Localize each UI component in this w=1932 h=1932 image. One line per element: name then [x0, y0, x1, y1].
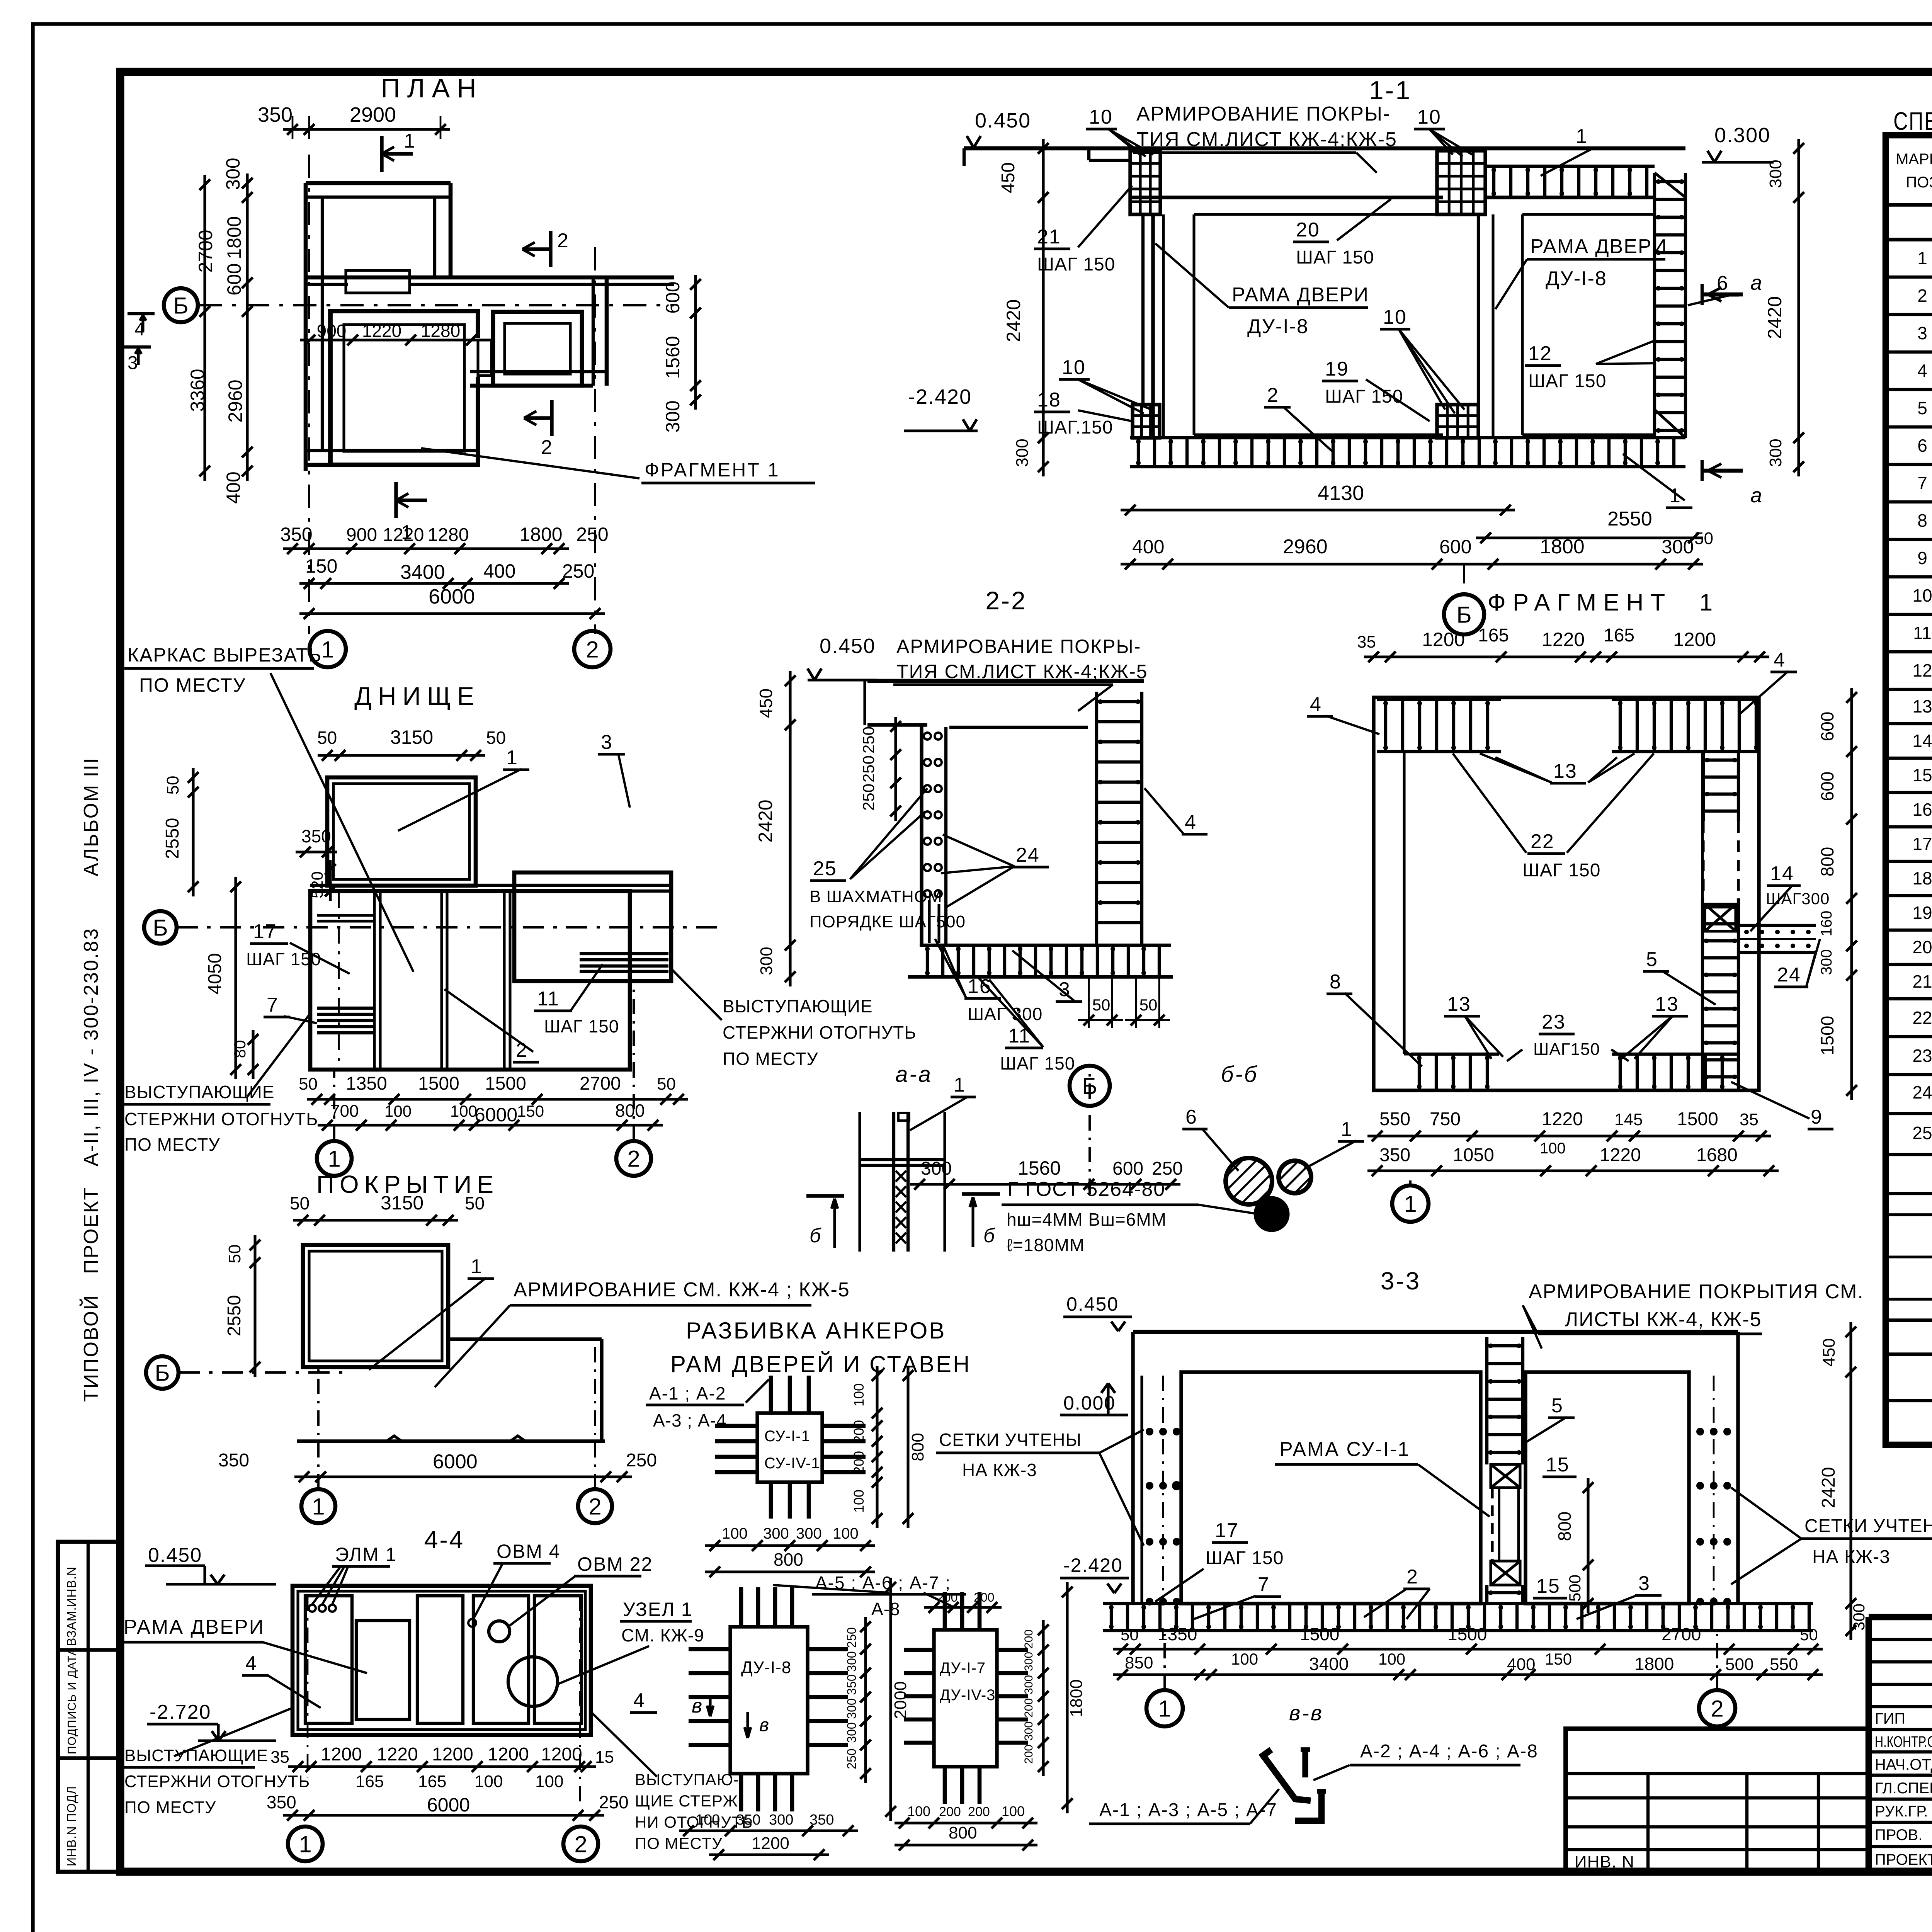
svg-text:250: 250 — [1152, 1158, 1183, 1179]
plan section mark 1 bottom — [394, 482, 398, 518]
svg-text:1-1: 1-1 — [1369, 76, 1412, 105]
anchor diagram SU-I-1 — [757, 1413, 822, 1482]
svg-text:4050: 4050 — [205, 953, 225, 995]
svg-text:600: 600 — [1439, 536, 1471, 558]
dnishche right panel — [514, 872, 671, 981]
svg-text:б: б — [983, 1225, 995, 1247]
svg-text:РАМА ДВЕРИ: РАМА ДВЕРИ — [1530, 235, 1667, 258]
svg-text:Г ГОСТ 5264-80: Г ГОСТ 5264-80 — [1007, 1178, 1165, 1201]
4-4 axis circles — [288, 1827, 323, 1861]
row 25 — [1886, 1153, 1932, 1156]
svg-text:1: 1 — [1576, 125, 1588, 148]
svg-text:200: 200 — [1022, 1698, 1035, 1718]
svg-text:165: 165 — [1604, 625, 1634, 646]
svg-text:ШАГ.150: ШАГ.150 — [1037, 417, 1113, 438]
svg-text:165: 165 — [355, 1772, 384, 1791]
svg-text:6: 6 — [1185, 1106, 1197, 1128]
svg-text:200: 200 — [1022, 1745, 1035, 1764]
svg-text:ШАГ 150: ШАГ 150 — [1296, 247, 1374, 268]
plan right room — [493, 312, 582, 386]
beton rows — [1886, 1399, 1932, 1402]
svg-text:1200: 1200 — [752, 1834, 789, 1853]
svg-text:-2.420: -2.420 — [1063, 1554, 1123, 1576]
svg-text:20: 20 — [1912, 937, 1932, 957]
svg-text:0.450: 0.450 — [975, 109, 1031, 132]
svg-text:В ШАХМАТНОМ: В ШАХМАТНОМ — [810, 887, 942, 906]
dnishche axis B — [144, 911, 177, 944]
row 24 — [1886, 1112, 1932, 1115]
svg-text:Б: Б — [1082, 1073, 1097, 1099]
svg-text:300: 300 — [662, 400, 684, 432]
svg-text:50: 50 — [317, 728, 337, 748]
svg-text:11: 11 — [537, 988, 560, 1010]
2-2 left wall with stirrups — [920, 725, 923, 945]
plan door top — [346, 270, 410, 293]
svg-text:1: 1 — [471, 1255, 483, 1278]
1-1 bottom dims — [1121, 509, 1515, 511]
svg-text:300: 300 — [757, 947, 776, 975]
svg-text:7: 7 — [267, 994, 279, 1016]
svg-text:2420: 2420 — [1818, 1467, 1839, 1509]
svg-text:20: 20 — [1296, 219, 1320, 241]
svg-text:3-3: 3-3 — [1381, 1267, 1421, 1295]
fragment right mid dashed frame — [1702, 821, 1704, 898]
svg-text:2-2: 2-2 — [985, 586, 1027, 615]
svg-text:100: 100 — [1231, 1650, 1258, 1668]
1-1 left dims — [1042, 188, 1044, 447]
svg-text:145: 145 — [1614, 1110, 1643, 1129]
svg-text:ЛИСТЫ КЖ-4, КЖ-5: ЛИСТЫ КЖ-4, КЖ-5 — [1565, 1308, 1762, 1331]
svg-text:350: 350 — [845, 1674, 859, 1695]
svg-text:100: 100 — [1378, 1650, 1405, 1668]
1-1 slab outline — [964, 146, 1685, 151]
svg-text:ВЫСТУПАЮЩИЕ: ВЫСТУПАЮЩИЕ — [124, 1746, 268, 1765]
svg-text:14: 14 — [1912, 731, 1932, 751]
svg-text:КАРКАС ВЫРЕЗАТЬ: КАРКАС ВЫРЕЗАТЬ — [128, 644, 322, 666]
svg-text:-2.720: -2.720 — [150, 1701, 211, 1723]
svg-text:1200: 1200 — [541, 1744, 582, 1765]
svg-text:9: 9 — [1811, 1106, 1823, 1128]
armatura band — [1886, 238, 1932, 241]
svg-text:250: 250 — [562, 560, 594, 582]
svg-text:ДУ-I-7: ДУ-I-7 — [940, 1660, 986, 1677]
4-4 ovm22 circle — [489, 1621, 510, 1642]
svg-text:3400: 3400 — [400, 561, 445, 583]
svg-text:200: 200 — [851, 1451, 867, 1474]
svg-text:4: 4 — [1185, 811, 1197, 833]
svg-text:50: 50 — [465, 1193, 485, 1213]
2-2 dims left 450 2420 300 — [789, 671, 791, 735]
plan main room — [330, 311, 478, 465]
1-1 room left inner edge — [1192, 214, 1195, 435]
svg-text:250: 250 — [599, 1792, 629, 1812]
svg-text:ФРАГМЕНТ 1: ФРАГМЕНТ 1 — [645, 459, 780, 481]
svg-text:НИ ОТОГНУТЬ: НИ ОТОГНУТЬ — [635, 1813, 753, 1831]
svg-text:1500: 1500 — [1677, 1109, 1718, 1129]
2-2 room — [949, 726, 1088, 729]
svg-text:300: 300 — [1022, 1721, 1035, 1741]
svg-text:РУК.ГР.: РУК.ГР. — [1875, 1803, 1928, 1820]
svg-text:15: 15 — [1546, 1454, 1570, 1476]
plan opening right — [468, 338, 492, 377]
svg-text:10: 10 — [1062, 356, 1086, 379]
svg-text:3: 3 — [601, 731, 613, 753]
svg-text:1: 1 — [1158, 1696, 1171, 1722]
svg-text:50: 50 — [225, 1245, 244, 1264]
svg-text:13: 13 — [1553, 760, 1577, 782]
svg-text:АЛЬБОМ III: АЛЬБОМ III — [80, 757, 102, 876]
svg-text:2: 2 — [627, 1146, 640, 1172]
title block left small table — [1566, 1729, 1869, 1872]
svg-text:4: 4 — [633, 1689, 645, 1712]
svg-text:350: 350 — [280, 524, 312, 545]
svg-text:в: в — [759, 1715, 770, 1735]
a-a column — [858, 1112, 861, 1252]
svg-text:50: 50 — [1800, 1626, 1818, 1644]
svg-text:100: 100 — [384, 1102, 412, 1120]
svg-text:100: 100 — [851, 1383, 867, 1406]
svg-text:2550: 2550 — [162, 818, 183, 859]
b-b weld circles — [1226, 1158, 1272, 1204]
svg-text:1200: 1200 — [1422, 629, 1465, 650]
2-2 bottom dims — [910, 1183, 1180, 1185]
svg-text:1800: 1800 — [519, 524, 562, 545]
svg-text:СЕТКИ УЧТЕНЫ: СЕТКИ УЧТЕНЫ — [939, 1430, 1082, 1450]
svg-text:hш=4ММ Вш=6ММ: hш=4ММ Вш=6ММ — [1007, 1209, 1167, 1230]
svg-text:ПОДПИСЬ И ДАТА: ПОДПИСЬ И ДАТА — [66, 1647, 78, 1754]
svg-text:13: 13 — [1912, 696, 1932, 716]
plan section mark 1 top — [380, 136, 383, 172]
svg-text:а: а — [1750, 484, 1763, 507]
1-1 bottom-mid anchor block — [1437, 405, 1478, 438]
plan bottom wall — [306, 449, 478, 452]
svg-text:АРМИРОВАНИЕ ПОКРЫ-: АРМИРОВАНИЕ ПОКРЫ- — [1136, 103, 1390, 125]
svg-text:1: 1 — [328, 1146, 340, 1172]
svg-text:ОВМ 22: ОВМ 22 — [577, 1553, 653, 1575]
svg-text:100: 100 — [696, 1812, 720, 1828]
svg-text:12: 12 — [1528, 342, 1552, 365]
svg-text:А-8: А-8 — [871, 1599, 900, 1619]
svg-text:ШАГ150: ШАГ150 — [1533, 1040, 1600, 1059]
svg-text:ДНИЩЕ: ДНИЩЕ — [354, 682, 480, 710]
svg-text:СПЕЦИФИКАЦИЯ ЭЛЕМЕНТОВ К СХЕ: СПЕЦИФИКАЦИЯ ЭЛЕМЕНТОВ К СХЕМАМ, РАСПОЛО… — [1893, 107, 1932, 135]
plan section mark 2 upper — [549, 231, 552, 267]
svg-text:1: 1 — [506, 747, 518, 769]
svg-text:350: 350 — [267, 1792, 296, 1812]
svg-text:2: 2 — [541, 436, 553, 459]
plan top dims — [283, 128, 450, 131]
svg-text:450: 450 — [998, 162, 1019, 193]
svg-text:ГЛ.СПЕЦ.: ГЛ.СПЕЦ. — [1875, 1780, 1932, 1797]
svg-text:0.450: 0.450 — [148, 1544, 202, 1566]
svg-text:250: 250 — [626, 1450, 657, 1471]
svg-text:35: 35 — [270, 1748, 289, 1767]
svg-text:350: 350 — [810, 1812, 834, 1828]
svg-text:АРМИРОВАНИЕ СМ. КЖ-4 ; КЖ-5: АРМИРОВАНИЕ СМ. КЖ-4 ; КЖ-5 — [514, 1279, 850, 1301]
svg-text:50: 50 — [1694, 529, 1713, 548]
svg-text:19: 19 — [1912, 903, 1932, 923]
3-3 foundation band — [1103, 1602, 1813, 1605]
svg-text:6000: 6000 — [474, 1104, 517, 1126]
plan bottom dims — [283, 547, 569, 550]
svg-text:1350: 1350 — [346, 1073, 387, 1094]
anchor DU-I-7 dims — [1042, 1620, 1044, 1776]
pokrytie ground line — [297, 1439, 605, 1443]
svg-text:150: 150 — [1545, 1650, 1572, 1668]
svg-text:23: 23 — [1912, 1046, 1932, 1066]
anchor diagram DU-I-7 — [934, 1630, 997, 1767]
left margin stamp boxes — [58, 1542, 120, 1872]
svg-text:1220: 1220 — [362, 321, 401, 341]
svg-text:25: 25 — [1912, 1123, 1932, 1143]
svg-text:200: 200 — [851, 1420, 867, 1443]
2-2 dims 50 50 — [1088, 977, 1090, 1028]
3-3 dim 800 500 — [1587, 1478, 1589, 1613]
svg-text:2960: 2960 — [224, 379, 246, 422]
svg-text:1280: 1280 — [428, 525, 469, 545]
svg-text:1: 1 — [312, 1494, 325, 1520]
1-1 section a marks — [1702, 293, 1743, 297]
dnishche bottom dims row1 — [307, 1098, 688, 1100]
svg-text:СМ. КЖ-9: СМ. КЖ-9 — [621, 1625, 704, 1645]
svg-text:2420: 2420 — [1003, 299, 1024, 342]
pokrytie left dims — [253, 1235, 256, 1377]
svg-text:23: 23 — [1542, 1011, 1566, 1033]
svg-text:300: 300 — [845, 1722, 859, 1743]
title block outer — [1869, 1614, 1932, 1621]
svg-text:1: 1 — [1404, 1191, 1417, 1217]
svg-text:А-1 ; А-3 ; А-5 ; А-7: А-1 ; А-3 ; А-5 ; А-7 — [1099, 1800, 1277, 1820]
svg-text:ПО МЕСТУ: ПО МЕСТУ — [723, 1049, 818, 1069]
3-3 right dims — [1849, 1322, 1852, 1640]
svg-text:21: 21 — [1912, 971, 1932, 992]
dnishche left dims — [192, 768, 194, 896]
svg-text:600: 600 — [1817, 772, 1837, 801]
svg-text:15: 15 — [1536, 1575, 1560, 1597]
svg-text:ПРОВ.: ПРОВ. — [1875, 1827, 1922, 1844]
4-4 bottom dims — [288, 1765, 596, 1768]
svg-text:1: 1 — [321, 637, 334, 663]
svg-text:50: 50 — [299, 1075, 318, 1094]
svg-text:100: 100 — [474, 1772, 503, 1791]
2-2 axis B — [1088, 1065, 1091, 1194]
svg-text:160: 160 — [1818, 911, 1835, 937]
svg-text:1680: 1680 — [1696, 1145, 1738, 1165]
a-a b marks — [806, 1194, 844, 1197]
dnishche bottom dims row2 — [318, 1124, 663, 1126]
plan section mark 2 lower — [550, 400, 553, 436]
svg-text:50: 50 — [1139, 996, 1158, 1014]
plan axis circle B — [164, 288, 198, 322]
svg-text:24: 24 — [1777, 964, 1801, 986]
svg-text:2420: 2420 — [755, 799, 776, 842]
svg-text:600: 600 — [662, 281, 684, 313]
svg-text:1220: 1220 — [383, 525, 424, 545]
svg-text:-2.420: -2.420 — [908, 385, 972, 408]
3-3 left panel — [1181, 1372, 1481, 1604]
svg-text:2900: 2900 — [350, 103, 396, 126]
svg-text:800: 800 — [1554, 1512, 1575, 1541]
svg-text:300: 300 — [222, 158, 244, 190]
svg-text:СУ-IV-1: СУ-IV-1 — [764, 1455, 820, 1472]
pokrytie step right — [448, 1337, 602, 1341]
svg-text:2: 2 — [557, 230, 569, 252]
1-1 bottom foundation band — [1130, 436, 1685, 439]
svg-text:750: 750 — [1430, 1109, 1461, 1129]
svg-text:200: 200 — [937, 1590, 957, 1604]
svg-text:25: 25 — [813, 857, 837, 880]
svg-text:550: 550 — [1379, 1109, 1410, 1129]
svg-text:165: 165 — [418, 1772, 446, 1791]
svg-text:400: 400 — [483, 560, 515, 582]
svg-text:200: 200 — [974, 1590, 994, 1604]
svg-text:1200: 1200 — [1673, 629, 1716, 650]
anchor SU dims bottom — [705, 1544, 875, 1547]
svg-text:1560: 1560 — [662, 336, 684, 379]
svg-text:900: 900 — [317, 321, 347, 341]
svg-text:2960: 2960 — [1283, 536, 1328, 558]
svg-text:350: 350 — [736, 1812, 760, 1828]
plan axis lines — [308, 155, 310, 634]
svg-text:РАМА СУ-I-1: РАМА СУ-I-1 — [1279, 1438, 1410, 1461]
svg-text:550: 550 — [1770, 1655, 1798, 1674]
fragment right wall ladder — [1701, 898, 1704, 1090]
svg-text:1220: 1220 — [1542, 1109, 1583, 1129]
v-v angle pieces — [1263, 1755, 1311, 1801]
svg-text:ПО МЕСТУ: ПО МЕСТУ — [139, 674, 246, 696]
fragment bottom band 2 — [1612, 1053, 1738, 1056]
svg-text:14: 14 — [1770, 862, 1794, 885]
svg-text:1500: 1500 — [1300, 1624, 1339, 1644]
svg-text:1200: 1200 — [432, 1744, 473, 1765]
svg-text:1800: 1800 — [1067, 1679, 1086, 1717]
svg-text:1500: 1500 — [418, 1073, 459, 1094]
svg-text:Б: Б — [155, 1360, 170, 1386]
svg-text:АРМИРОВАНИЕ ПОКРЫТИЯ СМ.: АРМИРОВАНИЕ ПОКРЫТИЯ СМ. — [1529, 1281, 1864, 1303]
svg-text:СУ-I-1: СУ-I-1 — [764, 1428, 810, 1445]
svg-text:100: 100 — [1002, 1803, 1025, 1819]
svg-text:17: 17 — [253, 920, 277, 943]
3-3 axis circles — [1146, 1690, 1183, 1726]
3-3 outline — [1133, 1330, 1738, 1334]
plan room dims — [300, 338, 481, 341]
anchor SU dims right — [876, 1366, 878, 1528]
svg-text:ШАГ 150: ШАГ 150 — [1037, 254, 1115, 275]
svg-text:100: 100 — [722, 1525, 748, 1542]
pokrytie panel — [303, 1245, 448, 1367]
svg-text:СТЕРЖНИ ОТОГНУТЬ: СТЕРЖНИ ОТОГНУТЬ — [723, 1022, 916, 1043]
svg-text:350: 350 — [1379, 1145, 1410, 1165]
svg-text:300: 300 — [1022, 1652, 1035, 1671]
svg-text:2: 2 — [1267, 384, 1279, 406]
svg-text:2700: 2700 — [1662, 1624, 1701, 1644]
svg-text:ПЛАН: ПЛАН — [381, 73, 483, 103]
svg-text:200: 200 — [1022, 1629, 1035, 1649]
svg-text:2: 2 — [1917, 286, 1927, 306]
svg-text:2: 2 — [1711, 1696, 1723, 1722]
svg-text:1: 1 — [954, 1074, 966, 1096]
svg-text:22: 22 — [1912, 1008, 1932, 1028]
svg-text:ДУ-I-8: ДУ-I-8 — [1546, 267, 1607, 290]
fragment protrusion right — [1738, 924, 1816, 927]
svg-text:2: 2 — [1406, 1566, 1418, 1588]
svg-text:300: 300 — [1766, 160, 1785, 188]
1-1 right wall ladder — [1653, 173, 1656, 438]
pokrytie dims top — [293, 1219, 458, 1221]
svg-text:800: 800 — [774, 1549, 803, 1570]
svg-text:1: 1 — [1917, 248, 1927, 268]
svg-text:100: 100 — [907, 1803, 930, 1819]
svg-text:300: 300 — [1766, 439, 1785, 467]
fragment top band 1 — [1377, 698, 1501, 701]
svg-text:100: 100 — [833, 1525, 859, 1542]
4-4 panels — [305, 1596, 352, 1723]
svg-text:РАМ ДВЕРЕЙ И СТАВЕН: РАМ ДВЕРЕЙ И СТАВЕН — [670, 1351, 971, 1377]
svg-text:ШАГ 150: ШАГ 150 — [1206, 1548, 1284, 1568]
svg-text:ФРАГМЕНТ 1: ФРАГМЕНТ 1 — [1488, 589, 1719, 616]
svg-text:520: 520 — [308, 871, 326, 898]
plan axis circles — [310, 631, 346, 667]
svg-text:10: 10 — [1383, 306, 1407, 328]
svg-text:4: 4 — [1774, 649, 1786, 671]
svg-text:500: 500 — [1725, 1655, 1753, 1674]
svg-text:ПО МЕСТУ: ПО МЕСТУ — [124, 1134, 220, 1155]
svg-text:350: 350 — [218, 1450, 249, 1471]
svg-text:4-4: 4-4 — [424, 1526, 465, 1554]
4-4 anchors elm1 — [309, 1605, 316, 1612]
svg-text:4: 4 — [245, 1652, 257, 1675]
fragment top band 2 — [1612, 698, 1759, 701]
svg-text:900: 900 — [346, 525, 377, 545]
spec table grid — [1886, 135, 1932, 1445]
1-1 top band right — [1485, 165, 1655, 168]
1-1 bottom-left anchor block — [1133, 405, 1160, 438]
plan right dims — [694, 275, 697, 410]
svg-text:250: 250 — [859, 755, 878, 782]
fragment inner room — [1403, 752, 1405, 1054]
svg-text:ТИПОВОЙ ПРОЕКТ А-II, III,: ТИПОВОЙ ПРОЕКТ А-II, III, IV - 300-230.8… — [80, 927, 102, 1402]
svg-text:4: 4 — [1310, 693, 1322, 716]
svg-text:1500: 1500 — [485, 1073, 526, 1094]
svg-text:7: 7 — [1258, 1573, 1270, 1596]
svg-text:ЭЛМ 1: ЭЛМ 1 — [335, 1544, 397, 1565]
svg-text:ИНВ.N ПОДЛ: ИНВ.N ПОДЛ — [65, 1786, 78, 1866]
svg-text:РАМА ДВЕРИ: РАМА ДВЕРИ — [1232, 284, 1369, 306]
svg-text:10: 10 — [1417, 106, 1441, 128]
svg-text:5: 5 — [1646, 948, 1658, 971]
svg-text:15: 15 — [1912, 765, 1932, 785]
svg-text:600: 600 — [1112, 1158, 1143, 1179]
svg-text:450: 450 — [1820, 1338, 1838, 1366]
svg-text:400: 400 — [1132, 536, 1164, 558]
svg-text:а: а — [1750, 271, 1763, 294]
pokrytie bottom dims — [294, 1475, 632, 1478]
svg-text:в-в: в-в — [1289, 1701, 1323, 1725]
svg-text:5: 5 — [1551, 1395, 1563, 1417]
svg-text:ДУ-IV-3: ДУ-IV-3 — [940, 1687, 995, 1704]
pokrytie axis circles — [301, 1489, 335, 1523]
svg-text:300: 300 — [769, 1812, 793, 1828]
3-3 bottom dims row1 — [1113, 1648, 1823, 1650]
3-3 central ladder — [1485, 1337, 1488, 1464]
svg-text:ШАГ 150: ШАГ 150 — [1522, 860, 1600, 881]
svg-text:ПРОЕКТ.: ПРОЕКТ. — [1875, 1851, 1932, 1868]
svg-text:3400: 3400 — [1309, 1654, 1349, 1674]
pokrytie axis B — [146, 1356, 179, 1389]
svg-text:600: 600 — [223, 263, 245, 295]
svg-text:УЗЕЛ 1: УЗЕЛ 1 — [623, 1599, 693, 1620]
svg-text:1200: 1200 — [321, 1744, 362, 1765]
